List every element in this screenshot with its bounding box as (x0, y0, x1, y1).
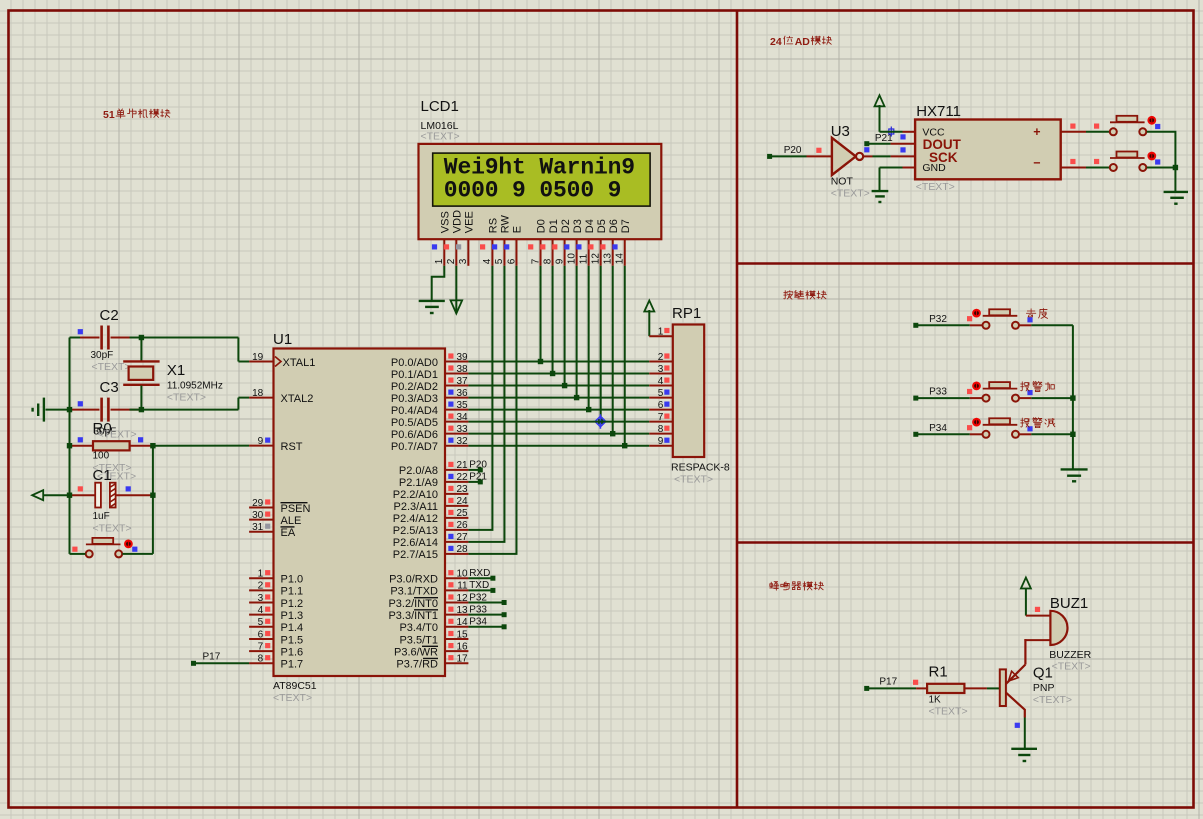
state square button P34 right (1027, 426, 1032, 431)
svg-text:5: 5 (658, 388, 664, 399)
net stub P21 at U1 pin 22 (468, 479, 482, 484)
svg-text:P0.2/AD2: P0.2/AD2 (391, 381, 438, 393)
junction right rail at minus row (1173, 165, 1178, 170)
U1 pin 21 P2.0/A8 (399, 460, 488, 478)
state square U3 output (864, 147, 869, 152)
state square button P33 left (967, 389, 972, 394)
state square load cell button 1 right (1155, 124, 1160, 129)
key module right rail (1072, 325, 1074, 470)
svg-text:<TEXT>: <TEXT> (93, 523, 132, 535)
svg-text:LCD1: LCD1 (421, 98, 459, 115)
ADC HX711 body (891, 103, 1086, 193)
LCD pin 4 RS (480, 218, 500, 266)
junction key rail P33 (1070, 395, 1075, 400)
wire P0.5 row to RP1 pin 7 (468, 421, 649, 423)
svg-text:1: 1 (434, 258, 445, 264)
svg-text:P33: P33 (929, 387, 947, 398)
ground left of C3 (33, 398, 70, 422)
svg-text:3: 3 (258, 593, 264, 604)
svg-text:100: 100 (93, 451, 110, 462)
reset button actuator icon (124, 540, 133, 549)
svg-text:2: 2 (258, 581, 264, 592)
wire left vertical rail (69, 338, 71, 554)
junction C1 right on rail (150, 493, 155, 498)
LCD pin 8 D1 (540, 219, 560, 266)
svg-text:12: 12 (591, 253, 602, 265)
wire R0 right to RST (153, 445, 249, 447)
load cell button 2 actuator (1147, 152, 1156, 161)
svg-text:P3.2/INT0: P3.2/INT0 (388, 598, 438, 610)
svg-text:RESPACK-8: RESPACK-8 (671, 462, 730, 474)
svg-text:9: 9 (554, 258, 565, 264)
svg-text:C1: C1 (93, 467, 112, 484)
svg-text:37: 37 (456, 376, 468, 387)
svg-text:P2.1/A9: P2.1/A9 (399, 477, 438, 489)
svg-text:30: 30 (252, 510, 264, 521)
svg-text:10: 10 (456, 569, 468, 580)
U1 pin 5 P1.4 (249, 617, 303, 634)
U1 pin 35 P0.4/AD4 (391, 400, 468, 417)
wire right vertical rail R0-C1-button (152, 446, 154, 554)
svg-text:1K: 1K (929, 694, 942, 705)
wire P0.1 row to RP1 pin 3 (468, 373, 649, 375)
svg-text:8: 8 (258, 654, 264, 665)
svg-text:P0.7/AD7: P0.7/AD7 (391, 441, 438, 453)
ground key module (1061, 469, 1088, 481)
svg-text:P0.6/AD6: P0.6/AD6 (391, 429, 438, 441)
U1 pin 4 P1.3 (249, 605, 303, 622)
svg-text:VSS: VSS (440, 211, 452, 233)
LCD pin 3 VEE (456, 211, 476, 266)
U1 pin 28 P2.7/A15 (393, 544, 469, 561)
svg-text:18: 18 (252, 388, 264, 399)
svg-text:13: 13 (603, 253, 614, 265)
state square HX711 minus pin (1070, 159, 1075, 164)
svg-text:RST: RST (281, 441, 303, 453)
U1 pin 11 P3.1/TXD (390, 580, 489, 598)
state square reset button right (132, 547, 137, 552)
svg-text:D3: D3 (572, 219, 584, 233)
svg-text:RP1: RP1 (672, 305, 701, 322)
LCD pin 2 VDD (444, 210, 464, 266)
svg-text:39: 39 (456, 352, 468, 363)
U1 pin 14 P3.4/T0 (399, 617, 487, 635)
state square C1 left (78, 486, 83, 491)
svg-text:29: 29 (252, 498, 264, 509)
state square button P34 left (967, 425, 972, 430)
U1 pin 27 P2.6/A14 (393, 532, 469, 549)
svg-text:P17: P17 (203, 652, 221, 663)
svg-text:24: 24 (770, 36, 782, 48)
U1 pin 7 P1.6 (249, 641, 303, 658)
svg-text:7: 7 (258, 641, 264, 652)
wire Q1 collector to ground (1024, 718, 1026, 749)
LCD LCD1 body (419, 144, 662, 239)
wire P0.6 row to RP1 pin 8 (468, 433, 649, 435)
svg-text:VDD: VDD (452, 210, 464, 233)
svg-text:5: 5 (258, 617, 264, 628)
load cell button 1 actuator (1147, 116, 1156, 125)
svg-text:XTAL2: XTAL2 (281, 393, 314, 405)
svg-text:2: 2 (658, 352, 664, 363)
U1 pin 37 P0.2/AD2 (391, 376, 468, 393)
power arrow down at LCD pin2 (451, 300, 463, 313)
svg-text:P3.5/T1: P3.5/T1 (399, 634, 438, 646)
svg-text:1: 1 (658, 326, 664, 337)
U1 pin 2 P1.1 (249, 581, 303, 598)
wire LCD pin1 VSS to ground (432, 266, 445, 301)
svg-text:<TEXT>: <TEXT> (98, 429, 137, 441)
U1 pin 9 RST (249, 436, 303, 453)
push button P34 (970, 418, 1032, 438)
push button P32 (970, 309, 1032, 329)
resistor R0 (70, 420, 153, 474)
push button P33 (970, 382, 1032, 402)
U1 pin 12 P3.2/INT0 (388, 592, 487, 610)
svg-text:35: 35 (456, 400, 468, 411)
wire LCD D6 down to P0.6 row (610, 266, 615, 437)
state square R1 left (913, 680, 918, 685)
svg-text:11: 11 (457, 581, 468, 592)
junction C3-X1 node (139, 407, 144, 412)
wire C3 right to corner and XTAL2 (130, 398, 250, 410)
svg-text:E: E (512, 226, 524, 233)
load cell button 1 (1110, 116, 1147, 136)
U1 pin 23 P2.2/A10 (393, 484, 469, 501)
RP1 pin 9 (649, 436, 673, 447)
U1 pin 38 P0.1/AD1 (391, 364, 468, 381)
wire rail to reset button left (70, 553, 86, 555)
svg-text:31: 31 (252, 522, 264, 533)
capacitor C1 (polarized) (70, 467, 153, 535)
state square HX711 DOUT (900, 134, 905, 139)
wire LCD D5 down to P0.5 row (598, 266, 603, 425)
svg-text:C2: C2 (100, 307, 119, 324)
state square HX711 SCK (900, 147, 905, 152)
svg-text:17: 17 (456, 654, 468, 665)
svg-text:X1: X1 (167, 362, 185, 379)
state square C2 left (78, 329, 83, 334)
RP1 pin 8 (649, 424, 673, 435)
state square load cell button 2 left (1094, 159, 1099, 164)
net stub P32 at U1 pin 12 (468, 600, 506, 605)
svg-text:26: 26 (456, 520, 468, 531)
svg-text:6: 6 (258, 629, 264, 640)
svg-text:30pF: 30pF (91, 350, 114, 361)
svg-text:XTAL1: XTAL1 (283, 357, 316, 369)
wire HX711 plus to load cell button 1 (1086, 131, 1110, 133)
svg-text:13: 13 (456, 605, 468, 616)
svg-text:P3.6/WR: P3.6/WR (394, 646, 438, 658)
svg-text:<TEXT>: <TEXT> (273, 692, 312, 704)
svg-text:19: 19 (252, 352, 264, 363)
wire P0.0 row to RP1 pin 2 (468, 361, 649, 363)
capacitor C3 (70, 379, 142, 422)
state square U3 input (816, 148, 821, 153)
U1 pin 19 XTAL1 (249, 352, 315, 369)
svg-text:P2.6/A14: P2.6/A14 (393, 537, 438, 549)
svg-text:<TEXT>: <TEXT> (929, 706, 968, 718)
svg-text:D2: D2 (560, 219, 572, 233)
svg-text:RW: RW (500, 214, 512, 233)
wire P0.4 row to RP1 pin 6 (468, 409, 649, 411)
svg-text:GND: GND (922, 162, 946, 174)
svg-text:P34: P34 (929, 423, 947, 434)
svg-text:P1.4: P1.4 (281, 622, 304, 634)
svg-text:<TEXT>: <TEXT> (674, 474, 713, 486)
state square BUZ1 top (1035, 607, 1040, 612)
svg-text:AD: AD (795, 36, 811, 48)
wire U3 output to HX711 SCK (873, 155, 891, 157)
U1 pin 39 P0.0/AD0 (391, 352, 468, 369)
ground right of load cell buttons (1164, 192, 1188, 204)
wire net P17 to R1 (864, 686, 916, 691)
U1 pin 34 P0.5/AD5 (391, 412, 468, 429)
svg-text:P1.7: P1.7 (281, 659, 304, 671)
wire P0.7 row to RP1 pin 9 (468, 445, 649, 447)
svg-text:P3.4/T0: P3.4/T0 (399, 622, 438, 634)
svg-text:P0.1/AD1: P0.1/AD1 (391, 369, 438, 381)
svg-text:6: 6 (658, 400, 664, 411)
svg-text:3: 3 (458, 258, 469, 264)
svg-text:R1: R1 (929, 664, 948, 681)
svg-text:5: 5 (494, 258, 505, 264)
wire net P34 to button 3 (913, 432, 970, 437)
svg-text:D0: D0 (536, 219, 548, 233)
svg-text:RS: RS (488, 218, 500, 233)
wire LCD D1 down to P0.1 row (550, 266, 555, 376)
button P33 actuator (972, 382, 981, 391)
RP1 pin 2 (649, 352, 673, 363)
transistor Q1 (PNP) (1000, 639, 1072, 717)
RP1 pin 3 (649, 364, 673, 375)
module title 按键模块 (784, 290, 827, 299)
svg-text:7: 7 (658, 412, 664, 423)
svg-text:C3: C3 (100, 379, 119, 396)
wire net P32 to button 1 (913, 323, 970, 328)
RP1 pin 6 (649, 400, 673, 411)
net stub P20 at U1 pin 21 (468, 467, 482, 472)
svg-text:PSEN: PSEN (281, 503, 311, 515)
wire P0.2 row to RP1 pin 4 (468, 385, 649, 387)
load cell button 2 (1110, 152, 1147, 172)
svg-text:BUZ1: BUZ1 (1050, 595, 1088, 612)
wire LCD D4 down to P0.4 row (586, 266, 591, 413)
LCD LCD1 labels (421, 98, 460, 143)
svg-text:P1.5: P1.5 (281, 634, 304, 646)
U1 pin 32 P0.7/AD7 (391, 436, 468, 453)
power arrow up at RP1 pin 1 (644, 301, 654, 337)
svg-text:24: 24 (456, 496, 468, 507)
svg-text:P2.5/A13: P2.5/A13 (393, 525, 438, 537)
svg-text:P3.0/RXD: P3.0/RXD (389, 574, 438, 586)
U1 pin 30 ALE (249, 510, 301, 527)
svg-text:<TEXT>: <TEXT> (1052, 661, 1091, 673)
svg-text:32: 32 (456, 436, 468, 447)
svg-text:8: 8 (542, 258, 553, 264)
svg-text:−: − (1033, 156, 1040, 170)
svg-text:1uF: 1uF (93, 511, 110, 522)
wire LCD RS to U1 P2.5 (468, 266, 492, 530)
svg-text:P2.3/A11: P2.3/A11 (394, 501, 438, 513)
svg-text:HX711: HX711 (916, 103, 961, 120)
svg-text:EA: EA (281, 527, 296, 539)
svg-text:22: 22 (456, 472, 468, 483)
module title 蜂鸣器模块 (770, 582, 824, 591)
state square C1 right (126, 486, 131, 491)
junction R0-RST-C1 node (150, 443, 155, 448)
U1 pin 6 P1.5 (249, 629, 303, 646)
resistor R1 (916, 664, 987, 718)
svg-text:D7: D7 (620, 219, 632, 233)
state square R0 left (78, 437, 83, 442)
op-amp U1 body (AT89C51) (273, 331, 445, 704)
LCD pin 1 VSS (432, 211, 452, 266)
svg-text:P20: P20 (784, 145, 802, 156)
svg-text:14: 14 (615, 253, 626, 265)
state square load cell button 1 left (1094, 124, 1099, 129)
wire right rail down to ground (1174, 168, 1176, 192)
wire P0.3 row to RP1 pin 5 (468, 397, 649, 399)
svg-text:<TEXT>: <TEXT> (92, 361, 131, 373)
svg-text:NOT: NOT (831, 176, 854, 188)
label 报警加 (1021, 381, 1055, 391)
svg-text:10: 10 (566, 253, 577, 265)
button P34 actuator (972, 418, 981, 427)
svg-text:P2.4/A12: P2.4/A12 (393, 513, 438, 525)
svg-text:25: 25 (456, 508, 468, 519)
junction ground-C3-rail (67, 407, 72, 412)
label 报警减 (1021, 418, 1055, 428)
U1 pin 15 P3.5/T1 (399, 629, 468, 646)
RP1 pin 4 (649, 376, 673, 387)
svg-text:3: 3 (658, 364, 664, 375)
svg-text:34: 34 (456, 412, 468, 423)
U1 pin 33 P0.6/AD6 (391, 424, 468, 441)
svg-text:9: 9 (658, 436, 664, 447)
wire LCD D3 down to P0.3 row (574, 266, 579, 401)
U1 pin 16 P3.6/WR (394, 641, 468, 658)
U1 pin 31 EA (249, 522, 296, 539)
svg-text:BUZZER: BUZZER (1049, 649, 1091, 661)
svg-text:P2.0/A8: P2.0/A8 (399, 465, 438, 477)
state square R0 right (138, 437, 143, 442)
origin marker blue at P21 (886, 127, 896, 137)
svg-text:23: 23 (456, 484, 468, 495)
wire LCD D2 down to P0.2 row (562, 266, 567, 389)
svg-text:VEE: VEE (464, 211, 476, 233)
svg-text:<TEXT>: <TEXT> (167, 392, 206, 404)
LCD pin 11 D4 (576, 219, 596, 266)
svg-text:P0.5/AD5: P0.5/AD5 (391, 417, 438, 429)
state square HX711 plus pin (1070, 124, 1075, 129)
svg-text:6: 6 (506, 258, 517, 264)
svg-text:D6: D6 (608, 219, 620, 233)
U1 pin 24 P2.3/A11 (394, 496, 469, 513)
module title 24位AD模块 (770, 36, 832, 48)
svg-text:ALE: ALE (281, 515, 302, 527)
svg-text:4: 4 (658, 376, 664, 387)
svg-text:P0.0/AD0: P0.0/AD0 (391, 357, 438, 369)
svg-text:P21: P21 (875, 133, 893, 144)
state square reset button left (72, 547, 77, 552)
U1 pin 17 P3.7/RD (396, 654, 468, 671)
state square Q1 collector (1015, 723, 1020, 728)
svg-text:AT89C51: AT89C51 (273, 680, 317, 692)
wire C2 left to vertical rail (70, 337, 81, 339)
svg-text:P17: P17 (879, 676, 897, 687)
svg-text:36: 36 (456, 388, 468, 399)
wire net P21 to HX711 DOUT (864, 141, 890, 146)
wire load cell button 2 to right rail (1147, 167, 1176, 169)
svg-text:<TEXT>: <TEXT> (831, 188, 870, 200)
net stub RXD at U1 pin 10 (468, 576, 495, 581)
svg-text:15: 15 (456, 629, 468, 640)
state square button P32 left (967, 316, 972, 321)
LCD pin 9 D2 (552, 219, 572, 266)
button P32 actuator (972, 309, 981, 318)
svg-text:16: 16 (456, 641, 468, 652)
svg-text:2: 2 (446, 258, 457, 264)
svg-text:12: 12 (456, 593, 468, 604)
svg-text:11.0952MHz: 11.0952MHz (167, 381, 223, 392)
svg-text:14: 14 (456, 617, 468, 628)
svg-text:38: 38 (456, 364, 468, 375)
state square button P33 right (1027, 390, 1032, 395)
state square C3 left (78, 401, 83, 406)
wire net P33 to button 2 (913, 396, 970, 401)
svg-text:4: 4 (482, 258, 493, 264)
wire R1 to Q1 base (987, 687, 1000, 689)
svg-text:9: 9 (258, 436, 264, 447)
U1 pin 13 P3.3/INT1 (388, 604, 487, 622)
net stub TXD at U1 pin 11 (468, 588, 495, 593)
capacitor C2 (70, 307, 142, 373)
svg-text:<TEXT>: <TEXT> (1033, 694, 1072, 706)
wire button P32 to key rail (1031, 324, 1073, 326)
state square load cell button 2 right (1155, 159, 1160, 164)
U1 pin 18 XTAL2 (249, 388, 313, 405)
U1 pin 10 P3.0/RXD (389, 568, 490, 586)
U1 pin 3 P1.2 (249, 593, 303, 610)
resistor pack RP1 (671, 305, 730, 486)
ground below LCD pin1 (419, 301, 445, 313)
svg-text:P1.6: P1.6 (281, 646, 304, 658)
label 去皮 (1026, 309, 1047, 319)
svg-text:P32: P32 (929, 314, 947, 325)
wire LCD D7 down to P0.7 row (622, 266, 627, 449)
svg-text:27: 27 (456, 532, 468, 543)
state square button P32 right (1027, 317, 1032, 322)
LCD pin 7 D0 (528, 219, 548, 266)
wire P17 to U1 pin 8 (191, 661, 249, 666)
svg-text:51: 51 (103, 109, 115, 121)
U1 pin 29 PSEN (249, 498, 310, 515)
svg-text:21: 21 (456, 460, 468, 471)
module title 51单片机模块 (103, 109, 170, 121)
LCD pin 13 D6 (600, 219, 620, 266)
svg-text:P2.7/A15: P2.7/A15 (393, 549, 438, 561)
svg-text:U3: U3 (831, 123, 850, 140)
svg-text:28: 28 (456, 544, 468, 555)
RP1 pin 1 (649, 326, 673, 337)
svg-text:P1.2: P1.2 (281, 598, 304, 610)
svg-text:D5: D5 (596, 219, 608, 233)
cursor marker blue diamond at D5 junction (593, 414, 608, 429)
LCD pin 10 D3 (564, 219, 584, 266)
U1 pin 1 P1.0 (249, 569, 303, 586)
ground buzzer module (1011, 749, 1037, 761)
